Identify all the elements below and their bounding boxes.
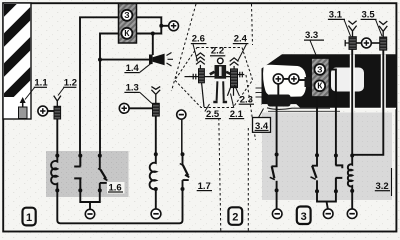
svg-text:К: К <box>124 28 130 38</box>
svg-text:З: З <box>317 64 322 74</box>
svg-text:3.5: 3.5 <box>362 9 376 20</box>
svg-text:3: 3 <box>301 211 307 223</box>
svg-text:3.1: 3.1 <box>329 9 343 20</box>
svg-text:2.4: 2.4 <box>234 33 248 44</box>
svg-text:2.6: 2.6 <box>192 33 205 44</box>
svg-text:1: 1 <box>26 212 32 224</box>
svg-text:3.3: 3.3 <box>305 30 318 41</box>
svg-text:2: 2 <box>232 212 238 224</box>
svg-text:З: З <box>124 10 129 20</box>
svg-text:2.2: 2.2 <box>211 46 224 57</box>
svg-text:К: К <box>317 81 323 91</box>
